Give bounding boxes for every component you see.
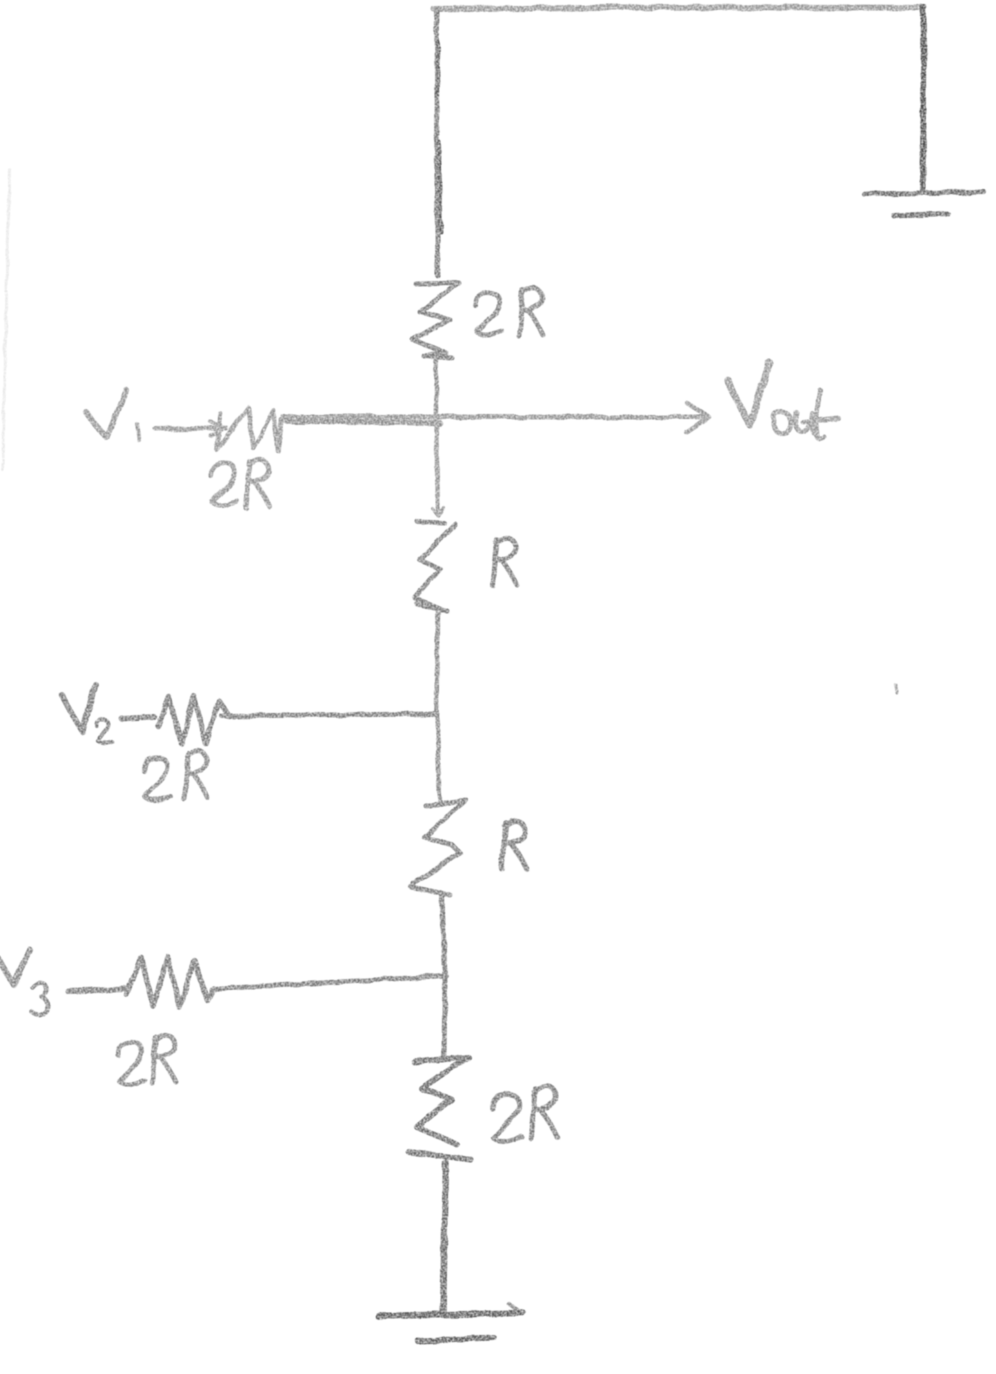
node A: horizontal wire to Vout arrow: [284, 415, 706, 420]
resistor 2R (bottom): [409, 1057, 471, 1160]
resistor R (lower): [411, 800, 466, 895]
wire: V2 dash: [122, 717, 154, 719]
wire: left vertical drop from rail to 2R top: [437, 9, 438, 276]
label R (upper): [493, 538, 517, 586]
label 2R (V2): [144, 751, 208, 800]
resistor R (upper): [415, 522, 455, 611]
label 2R (bottom): [492, 1086, 557, 1142]
wire: node A left overdraw (double stroke): [286, 421, 440, 423]
label V3: [0, 950, 47, 1015]
wire: node C down: [444, 977, 445, 1057]
wire: right vertical overdraw: [922, 12, 924, 188]
resistor 2R (V2): [158, 696, 229, 744]
wire: V3 dash: [68, 989, 125, 991]
resistor 2R (V1): [217, 407, 282, 451]
label R (lower): [502, 821, 526, 869]
label 2R (V3): [118, 1035, 176, 1084]
label 2R (V1): [211, 460, 270, 508]
stray pencil mark: [895, 684, 897, 693]
wire: node A down with arrow: [436, 420, 438, 511]
wire: R lower to node C: [442, 896, 445, 977]
wire: overdraw darker segment: [437, 42, 441, 232]
wire: V1 arrow line: [156, 428, 226, 429]
arrow head to Vout: [686, 403, 709, 432]
faint smudge left edge: [3, 170, 10, 470]
ground (bottom): [378, 1303, 523, 1341]
label 2R (top): [476, 288, 543, 336]
wire: R upper to node B: [437, 611, 438, 714]
resistor 2R (top): [413, 283, 459, 358]
label Vout: [728, 362, 838, 438]
label V1: [86, 390, 140, 441]
wire: node B down: [437, 714, 440, 800]
wire: 2R top to node A: [434, 358, 439, 419]
arrow head down: [432, 508, 444, 516]
node B: horizontal wire from V2: [222, 714, 436, 716]
ground (top right): [864, 192, 984, 216]
wire: right vertical drop to top ground: [923, 8, 924, 192]
node C: horizontal wire from V3: [211, 976, 446, 989]
wire: bottom 2R to ground: [443, 1163, 446, 1314]
resistor 2R (V3): [127, 956, 213, 1008]
label V2: [62, 684, 112, 743]
arrow head V1: [210, 421, 224, 436]
wire: top rail: [434, 7, 925, 9]
